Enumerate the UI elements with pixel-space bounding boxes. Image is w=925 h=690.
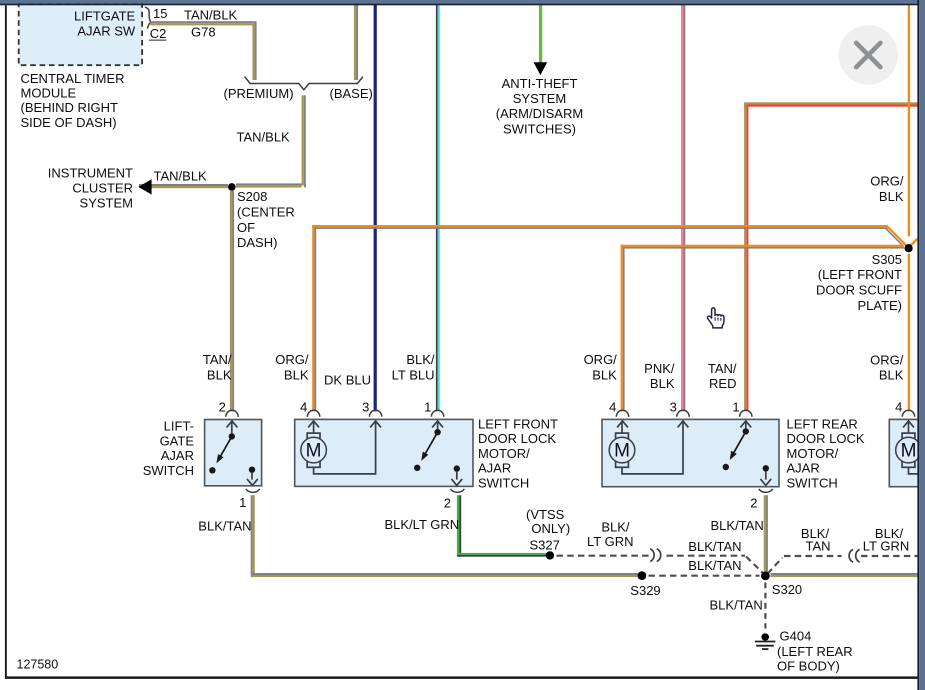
- svg-text:2: 2: [444, 496, 451, 511]
- svg-text:C2: C2: [150, 26, 167, 41]
- svg-text:1: 1: [239, 495, 246, 510]
- svg-text:TAN/BLK: TAN/BLK: [237, 130, 291, 145]
- svg-text:AJAR: AJAR: [478, 461, 511, 476]
- svg-text:OF BODY): OF BODY): [777, 659, 840, 674]
- svg-text:ORG/: ORG/: [870, 352, 904, 367]
- svg-text:M: M: [306, 441, 322, 462]
- svg-text:BLK/: BLK/: [601, 520, 630, 535]
- svg-text:1: 1: [424, 400, 431, 415]
- svg-text:BLK: BLK: [650, 376, 675, 391]
- svg-text:DOOR SCUFF: DOOR SCUFF: [816, 283, 902, 298]
- svg-text:AJAR SW: AJAR SW: [77, 24, 136, 39]
- svg-text:AJAR: AJAR: [787, 461, 820, 476]
- svg-text:TAN/: TAN/: [708, 361, 737, 376]
- svg-text:2: 2: [750, 496, 757, 511]
- svg-text:S305: S305: [872, 252, 902, 267]
- svg-text:ORG/: ORG/: [870, 174, 904, 189]
- svg-text:ONLY): ONLY): [531, 521, 570, 536]
- svg-text:(BEHIND RIGHT: (BEHIND RIGHT: [21, 100, 119, 115]
- svg-text:LEFT FRONT: LEFT FRONT: [478, 416, 558, 431]
- svg-text:SIDE OF DASH): SIDE OF DASH): [21, 115, 117, 130]
- svg-text:127580: 127580: [17, 658, 59, 672]
- svg-text:SYSTEM: SYSTEM: [513, 91, 566, 106]
- svg-text:BLK: BLK: [207, 367, 232, 382]
- svg-text:S208: S208: [237, 189, 267, 204]
- svg-text:DASH): DASH): [237, 235, 277, 250]
- svg-text:SYSTEM: SYSTEM: [80, 196, 133, 211]
- svg-text:TAN/BLK: TAN/BLK: [184, 8, 238, 23]
- svg-text:BLK/: BLK/: [406, 352, 435, 367]
- svg-text:AJAR: AJAR: [161, 448, 194, 463]
- svg-text:DK BLU: DK BLU: [324, 372, 371, 387]
- svg-text:BLK: BLK: [879, 367, 904, 382]
- svg-text:OF: OF: [237, 220, 255, 235]
- svg-text:DOOR LOCK: DOOR LOCK: [787, 431, 865, 446]
- svg-text:BLK/TAN: BLK/TAN: [198, 518, 251, 533]
- svg-text:ORG/: ORG/: [584, 352, 618, 367]
- svg-text:S329: S329: [630, 583, 660, 598]
- svg-text:(VTSS: (VTSS: [526, 507, 565, 522]
- svg-text:MOTOR/: MOTOR/: [787, 446, 839, 461]
- svg-text:SWITCH: SWITCH: [478, 476, 529, 491]
- svg-text:LIFT-: LIFT-: [164, 419, 194, 434]
- svg-text:M: M: [901, 441, 917, 462]
- svg-text:TAN: TAN: [805, 539, 830, 554]
- svg-text:BLK: BLK: [879, 189, 904, 204]
- svg-text:1: 1: [732, 400, 739, 415]
- svg-text:(BASE): (BASE): [330, 86, 373, 101]
- svg-text:3: 3: [670, 400, 677, 415]
- svg-text:4: 4: [300, 400, 307, 415]
- svg-text:TAN/: TAN/: [203, 352, 232, 367]
- svg-text:RED: RED: [709, 376, 736, 391]
- svg-text:BLK/TAN: BLK/TAN: [688, 558, 741, 573]
- svg-text:15: 15: [153, 6, 167, 21]
- svg-text:LT GRN: LT GRN: [587, 534, 633, 549]
- svg-text:SWITCH: SWITCH: [787, 476, 838, 491]
- svg-text:BLK/TAN: BLK/TAN: [711, 518, 764, 533]
- svg-text:(LEFT FRONT: (LEFT FRONT: [818, 267, 902, 282]
- svg-text:4: 4: [609, 400, 616, 415]
- svg-text:INSTRUMENT: INSTRUMENT: [48, 165, 133, 180]
- svg-text:4: 4: [895, 400, 902, 415]
- svg-text:CLUSTER: CLUSTER: [72, 181, 133, 196]
- svg-text:G404: G404: [780, 629, 812, 644]
- svg-text:PLATE): PLATE): [857, 298, 902, 313]
- svg-text:S320: S320: [772, 582, 802, 597]
- svg-text:BLK/LT GRN: BLK/LT GRN: [385, 517, 460, 532]
- svg-text:(CENTER: (CENTER: [237, 204, 295, 219]
- svg-text:LIFTGATE: LIFTGATE: [74, 8, 135, 23]
- svg-text:3: 3: [362, 400, 369, 415]
- svg-text:(LEFT REAR: (LEFT REAR: [777, 644, 853, 659]
- svg-text:DOOR LOCK: DOOR LOCK: [478, 431, 556, 446]
- svg-text:(ARM/DISARM: (ARM/DISARM: [496, 106, 583, 121]
- svg-text:ANTI-THEFT: ANTI-THEFT: [502, 76, 578, 91]
- svg-text:S327: S327: [530, 537, 560, 552]
- svg-text:LT GRN: LT GRN: [863, 539, 909, 554]
- svg-text:PNK/: PNK/: [644, 361, 675, 376]
- svg-text:BLK/TAN: BLK/TAN: [688, 539, 741, 554]
- svg-text:CENTRAL TIMER: CENTRAL TIMER: [21, 71, 125, 86]
- svg-text:G78: G78: [191, 25, 216, 40]
- svg-text:2: 2: [219, 400, 226, 415]
- svg-text:MOTOR/: MOTOR/: [478, 446, 530, 461]
- svg-text:BLK: BLK: [284, 367, 309, 382]
- svg-text:LEFT REAR: LEFT REAR: [787, 416, 858, 431]
- svg-text:LT BLU: LT BLU: [392, 367, 435, 382]
- svg-text:SWITCHES): SWITCHES): [503, 121, 576, 136]
- svg-text:GATE: GATE: [160, 433, 195, 448]
- svg-text:TAN/BLK: TAN/BLK: [154, 168, 208, 183]
- svg-text:SWITCH: SWITCH: [143, 463, 194, 478]
- svg-text:ORG/: ORG/: [275, 352, 309, 367]
- svg-text:(PREMIUM): (PREMIUM): [224, 86, 294, 101]
- svg-text:MODULE: MODULE: [21, 86, 77, 101]
- svg-text:BLK: BLK: [592, 367, 617, 382]
- svg-text:M: M: [614, 441, 630, 462]
- svg-text:BLK/TAN: BLK/TAN: [710, 598, 763, 613]
